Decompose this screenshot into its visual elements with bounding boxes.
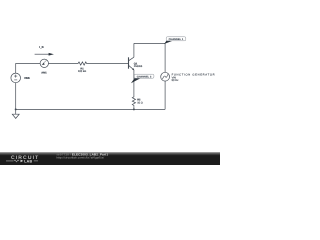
svg-text:http://circuitlab.com/c6x7af6g: http://circuitlab.com/c6x7af6gq65x/ — [56, 156, 104, 160]
transistor Q1 npn — [129, 57, 135, 70]
wire emitter down — [133, 70, 135, 96]
voltage source V1 VBB — [11, 73, 21, 83]
svg-text:VBB: VBB — [24, 77, 30, 80]
wire top-left riser — [16, 64, 40, 74]
wire FG bottom lead — [164, 81, 166, 109]
svg-text:CHANNEL 2: CHANNEL 2 — [137, 75, 152, 78]
svg-text:10 Ω: 10 Ω — [137, 102, 143, 105]
svg-text:FUNCTION GENERATOR: FUNCTION GENERATOR — [172, 73, 216, 76]
svg-text:AM1: AM1 — [41, 71, 47, 74]
svg-text:LAB: LAB — [24, 160, 32, 164]
wire collector top run — [134, 42, 165, 44]
function generator VIN — [161, 72, 170, 81]
resistor R1 — [77, 62, 87, 65]
wire ammeter to R1 — [49, 63, 78, 65]
svg-text:I_B: I_B — [39, 45, 44, 49]
svg-text:CHANNEL 1: CHANNEL 1 — [169, 38, 184, 41]
svg-text:50 Hz: 50 Hz — [172, 79, 179, 82]
wire R2 bottom lead — [133, 106, 135, 109]
scope flag CHANNEL 1 — [164, 37, 186, 44]
resistor R2 vertical — [132, 96, 135, 106]
junction dot left — [15, 108, 17, 110]
ground — [12, 109, 19, 118]
ammeter AM1 — [40, 59, 48, 67]
wire R1 to base — [87, 63, 129, 65]
svg-text:100 kΩ: 100 kΩ — [78, 70, 86, 73]
footer black bar — [0, 152, 220, 165]
wire VBB bottom lead — [15, 83, 17, 110]
wire collector riser — [133, 43, 135, 57]
wire right drop to function generator — [164, 43, 166, 72]
wire bottom rail — [16, 108, 165, 110]
scope flag CHANNEL 2 — [131, 74, 154, 83]
svg-text:2N3055: 2N3055 — [134, 65, 143, 68]
junction dot R2 bottom — [133, 108, 135, 110]
CircuitLab logo — [6, 155, 39, 163]
